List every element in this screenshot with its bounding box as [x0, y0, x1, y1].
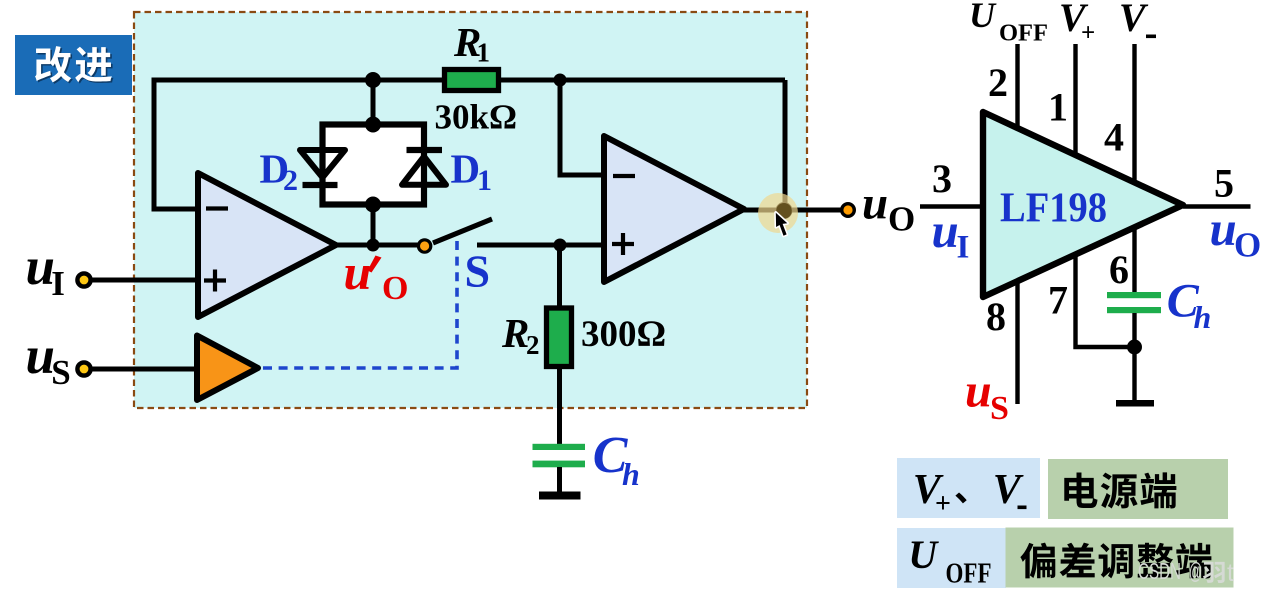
pin 5 output line: [1183, 204, 1251, 208]
junction node A (rail/diodes): [365, 72, 381, 88]
capacitor Ch top plate: [533, 444, 586, 450]
wire: left vertical to op-amp U1 inverting input: [154, 78, 198, 210]
wire: U2 output to u_O terminal: [744, 208, 843, 213]
svg-text:7: 7: [1048, 278, 1068, 323]
output node dot (highlighted): [776, 203, 792, 219]
resistor R2: [547, 308, 572, 367]
mouse cursor: [776, 213, 788, 236]
capacitor Ch (pinout) top plate: [1107, 292, 1161, 298]
diode D1 (pointing up): [402, 157, 446, 185]
diode D2 (pointing down): [300, 150, 345, 178]
junction node u'_O: [367, 239, 380, 252]
svg-text:+: +: [935, 489, 951, 520]
buffer amplifier (u_S driver): [197, 336, 258, 401]
junction node R2 tap: [554, 239, 567, 252]
switch S contact: [418, 240, 430, 252]
svg-text:2: 2: [988, 60, 1008, 105]
legend row1 key box: [897, 458, 1040, 518]
svg-text:OFF: OFF: [946, 558, 992, 590]
op-amp U2: [604, 136, 744, 282]
terminal u_S: [77, 362, 90, 375]
svg-text:u: u: [965, 365, 992, 418]
diode pair enclosure: [323, 125, 425, 205]
svg-text:S: S: [465, 246, 491, 297]
svg-text:30kΩ: 30kΩ: [435, 98, 518, 137]
terminal u_O: [842, 204, 855, 217]
ground bar: [539, 492, 581, 500]
resistor R1: [445, 70, 499, 91]
caption 改进 (improved): [15, 35, 132, 95]
terminal u_I: [77, 273, 90, 286]
svg-text:V: V: [1119, 0, 1149, 40]
wire: node B down to U2 inverting input: [560, 80, 604, 175]
wire: node A down to diode box: [371, 80, 376, 124]
svg-text:O: O: [888, 200, 915, 239]
wire: switch to U2 + input: [477, 243, 604, 248]
U1 minus sign: [206, 206, 228, 210]
svg-text:h: h: [1194, 299, 1212, 335]
output node highlight: [758, 193, 798, 233]
LF198 body: [983, 112, 1183, 297]
switch control dashed line: [263, 240, 457, 368]
mouse cursor outline: [776, 213, 788, 236]
wire: diode box bottom to U1 output rail: [371, 204, 376, 245]
legend row2 key box: [897, 528, 1006, 588]
pin 6 line to hold cap: [1132, 226, 1136, 293]
svg-text:5: 5: [1214, 161, 1234, 206]
svg-text:1: 1: [477, 164, 492, 197]
svg-text:1: 1: [477, 38, 491, 68]
op-amp U1: [198, 173, 336, 317]
junction node diode-box top: [365, 117, 381, 133]
U1 plus sign: [204, 270, 226, 292]
svg-text:S: S: [990, 390, 1009, 427]
capacitor Ch (pinout) bottom plate: [1107, 307, 1161, 313]
svg-text:4: 4: [1104, 115, 1124, 160]
wire: U1 output to switch contact: [334, 243, 418, 248]
svg-text:LF198: LF198: [1000, 186, 1107, 232]
svg-text:1: 1: [1048, 85, 1068, 130]
svg-text:t: t: [1227, 559, 1234, 587]
svg-text:CSDN: CSDN: [1138, 558, 1181, 584]
svg-text:D: D: [451, 146, 481, 192]
junction output node: [776, 202, 793, 219]
svg-text:U: U: [969, 0, 997, 35]
svg-text:u: u: [932, 203, 959, 258]
svg-text:I: I: [51, 264, 65, 303]
pin 8 line (to u_S): [1015, 280, 1019, 404]
svg-text:8: 8: [986, 294, 1006, 339]
D2 cathode bar: [303, 182, 338, 188]
svg-text:@: @: [1189, 558, 1203, 584]
legend row2 value box: [1006, 528, 1234, 588]
svg-text:S: S: [51, 353, 70, 392]
capacitor Ch bottom plate: [533, 461, 586, 468]
pin 2 line (from U_OFF): [1015, 44, 1019, 129]
wire: cap to ground: [557, 467, 562, 492]
svg-text:u: u: [344, 244, 372, 300]
svg-text:2: 2: [283, 164, 298, 197]
legend row2 value text 偏差调整端: [1020, 543, 1055, 579]
junction pin7/ground node: [1127, 340, 1142, 355]
wire: top feedback rail: [154, 78, 785, 83]
svg-text:O: O: [1234, 226, 1261, 265]
wire: feedback down to output node: [783, 80, 788, 211]
svg-text:6: 6: [1109, 247, 1129, 292]
wire: R2 to hold capacitor: [557, 366, 562, 446]
svg-text:u: u: [862, 178, 888, 230]
switch S lever: [433, 219, 492, 243]
svg-text:O: O: [382, 270, 408, 307]
prime mark: [368, 256, 382, 273]
U2 plus sign: [612, 233, 634, 255]
wire: cap to ground (pinout): [1132, 313, 1136, 400]
ground bar (pinout): [1116, 400, 1154, 407]
pin 4 line (from V-): [1132, 44, 1136, 183]
junction node diode-box bottom: [365, 197, 381, 213]
pin 1 line (from V+): [1073, 44, 1077, 156]
U2 minus sign: [613, 174, 635, 178]
svg-text:3: 3: [932, 156, 952, 201]
wire: u_I terminal to U1 + input: [90, 278, 198, 283]
wire: R2 branch down: [557, 245, 562, 310]
svg-text:2: 2: [526, 330, 540, 360]
pin 3 input line: [920, 204, 983, 208]
legend row1 value text 电源端: [1064, 473, 1097, 508]
svg-text:OFF: OFF: [999, 20, 1048, 47]
svg-text:I: I: [957, 230, 970, 266]
svg-text:u: u: [1210, 201, 1237, 256]
legend row1 value box: [1048, 459, 1228, 519]
svg-text:h: h: [622, 456, 640, 492]
svg-text:+: +: [1081, 19, 1095, 46]
pin 7 line with bend to ground node: [1076, 254, 1135, 348]
sample-and-hold improved-circuit boundary box: [134, 12, 807, 408]
junction node B (rail/U2 branch): [554, 74, 567, 87]
svg-text:U: U: [908, 532, 939, 577]
wire: u_S terminal to buffer: [90, 367, 198, 372]
D1 cathode bar: [407, 147, 443, 153]
svg-text:300Ω: 300Ω: [581, 314, 666, 355]
